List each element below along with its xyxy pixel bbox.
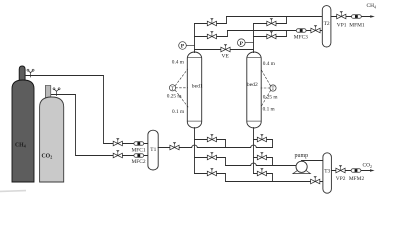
- MFC2: [134, 154, 144, 158]
- svg-text:0.1 m: 0.1 m: [263, 106, 276, 112]
- thermocouple T bed2: [261, 69, 276, 107]
- valve VP2: [336, 165, 345, 173]
- svg-text:0.25 m: 0.25 m: [263, 94, 279, 100]
- wire equalization line VE: [195, 49, 254, 51]
- valve feed: [170, 142, 179, 150]
- wire CO2 supply line to MFC2 line: [51, 95, 148, 156]
- wire bed1 bottom branch A: [195, 140, 226, 148]
- MFC3: [296, 29, 306, 33]
- MFC1: [134, 142, 144, 146]
- MFM2: [351, 169, 361, 173]
- svg-text:MFC2: MFC2: [132, 159, 146, 165]
- valve V3 bed2 product: [267, 18, 276, 26]
- wire bed2 bottom branch B2: [254, 158, 273, 166]
- wire feed line from T1 (hops over bed risers): [158, 145, 272, 147]
- valve on CO2 feed line: [113, 150, 122, 158]
- svg-text:0.25 m: 0.25 m: [167, 94, 183, 100]
- shadow streak bottom-left: [0, 190, 26, 193]
- wire bed1 bottom riser: [194, 128, 196, 174]
- svg-text:T: T: [272, 87, 275, 92]
- wire bed1 product branch: [195, 17, 227, 24]
- valve V1 bed1 product: [207, 18, 216, 26]
- wire bed1 purge branch: [195, 31, 228, 37]
- wire bed1 bottom branch C: [195, 174, 226, 182]
- svg-text:0.4 m: 0.4 m: [263, 61, 276, 67]
- thermocouple T bed1: [169, 69, 188, 107]
- valve C2 bed2 blowdown: [257, 168, 266, 176]
- wire bed1 top riser: [194, 24, 196, 53]
- wire product header to T2: [227, 16, 323, 18]
- valve purge inlet T2: [311, 25, 320, 33]
- pressure gauge P bed1: [179, 42, 195, 50]
- tank T2: [322, 6, 331, 47]
- svg-text:VE: VE: [222, 53, 230, 59]
- adsorption bed1: [187, 52, 203, 128]
- valve blowdown inlet T3: [311, 176, 320, 184]
- wire bed1 bottom branch B: [195, 158, 226, 166]
- valve B2 bed2 evacuation: [257, 152, 266, 160]
- svg-text:MFM1: MFM1: [349, 22, 365, 28]
- regulator on CO2 cylinder: [53, 88, 60, 96]
- svg-text:T2: T2: [324, 21, 330, 27]
- wire bed2 bottom branch C2: [254, 174, 273, 182]
- svg-text:VP1: VP1: [337, 22, 347, 28]
- wire bed2 product branch: [254, 17, 287, 24]
- svg-text:MFM2: MFM2: [349, 176, 365, 182]
- arrow CH4 product out: [370, 15, 375, 18]
- tank T3: [323, 153, 332, 193]
- pressure gauge P bed2: [238, 39, 254, 47]
- svg-text:MFC1: MFC1: [132, 148, 146, 154]
- wire bed2 bottom riser: [253, 128, 255, 174]
- wire bed2 top riser: [253, 24, 255, 53]
- valve C bed1 blowdown: [207, 168, 216, 176]
- regulator on CH4 cylinder: [27, 69, 34, 77]
- valve on CH4 feed line: [113, 138, 122, 146]
- valve A bed1 feed: [207, 134, 216, 142]
- svg-text:pump: pump: [295, 153, 309, 159]
- svg-text:MFC3: MFC3: [294, 35, 308, 41]
- tank T1: [148, 130, 158, 170]
- svg-text:T: T: [171, 87, 174, 92]
- valve A2 bed2 feed: [257, 134, 266, 142]
- svg-text:0.1 m: 0.1 m: [172, 109, 185, 115]
- svg-text:CH4: CH4: [15, 143, 26, 149]
- svg-text:CH4: CH4: [367, 3, 377, 9]
- svg-text:P: P: [181, 44, 185, 50]
- svg-text:CO2: CO2: [363, 163, 373, 169]
- adsorption bed2: [247, 52, 261, 128]
- valve VP1: [337, 11, 346, 19]
- wire T3 outlet: [331, 170, 371, 172]
- cylinder CH4: [12, 66, 34, 182]
- cylinder CO2: [40, 86, 64, 183]
- svg-text:VP2: VP2: [336, 176, 346, 182]
- wire vacuum pump suction header (hops over bed2 riser): [226, 163, 297, 165]
- wire bed2 purge branch: [254, 31, 287, 37]
- valve B bed1 evacuation: [207, 152, 216, 160]
- wire bed2 bottom branch A2: [254, 140, 273, 148]
- svg-text:bed2: bed2: [247, 82, 258, 88]
- svg-text:CO2: CO2: [42, 153, 53, 159]
- valve V2 bed1 purge: [207, 31, 216, 39]
- wire pump discharge to T3: [302, 160, 323, 162]
- svg-text:bed1: bed1: [192, 83, 203, 89]
- svg-text:P: P: [240, 41, 244, 47]
- svg-text:0.4 m: 0.4 m: [172, 60, 185, 66]
- wire T2 outlet: [331, 16, 371, 18]
- valve VE: [221, 44, 230, 52]
- svg-text:T3: T3: [324, 168, 330, 174]
- wire blowdown header to T3: [226, 181, 323, 183]
- pump: [293, 153, 311, 173]
- wire CH4 supply line to MFC1 line: [25, 76, 148, 144]
- MFM1: [352, 15, 362, 19]
- svg-text:T1: T1: [150, 147, 156, 153]
- wire purge header to T2: [228, 30, 323, 32]
- arrow CO2 product out: [370, 169, 375, 172]
- valve V4 bed2 purge: [267, 31, 276, 39]
